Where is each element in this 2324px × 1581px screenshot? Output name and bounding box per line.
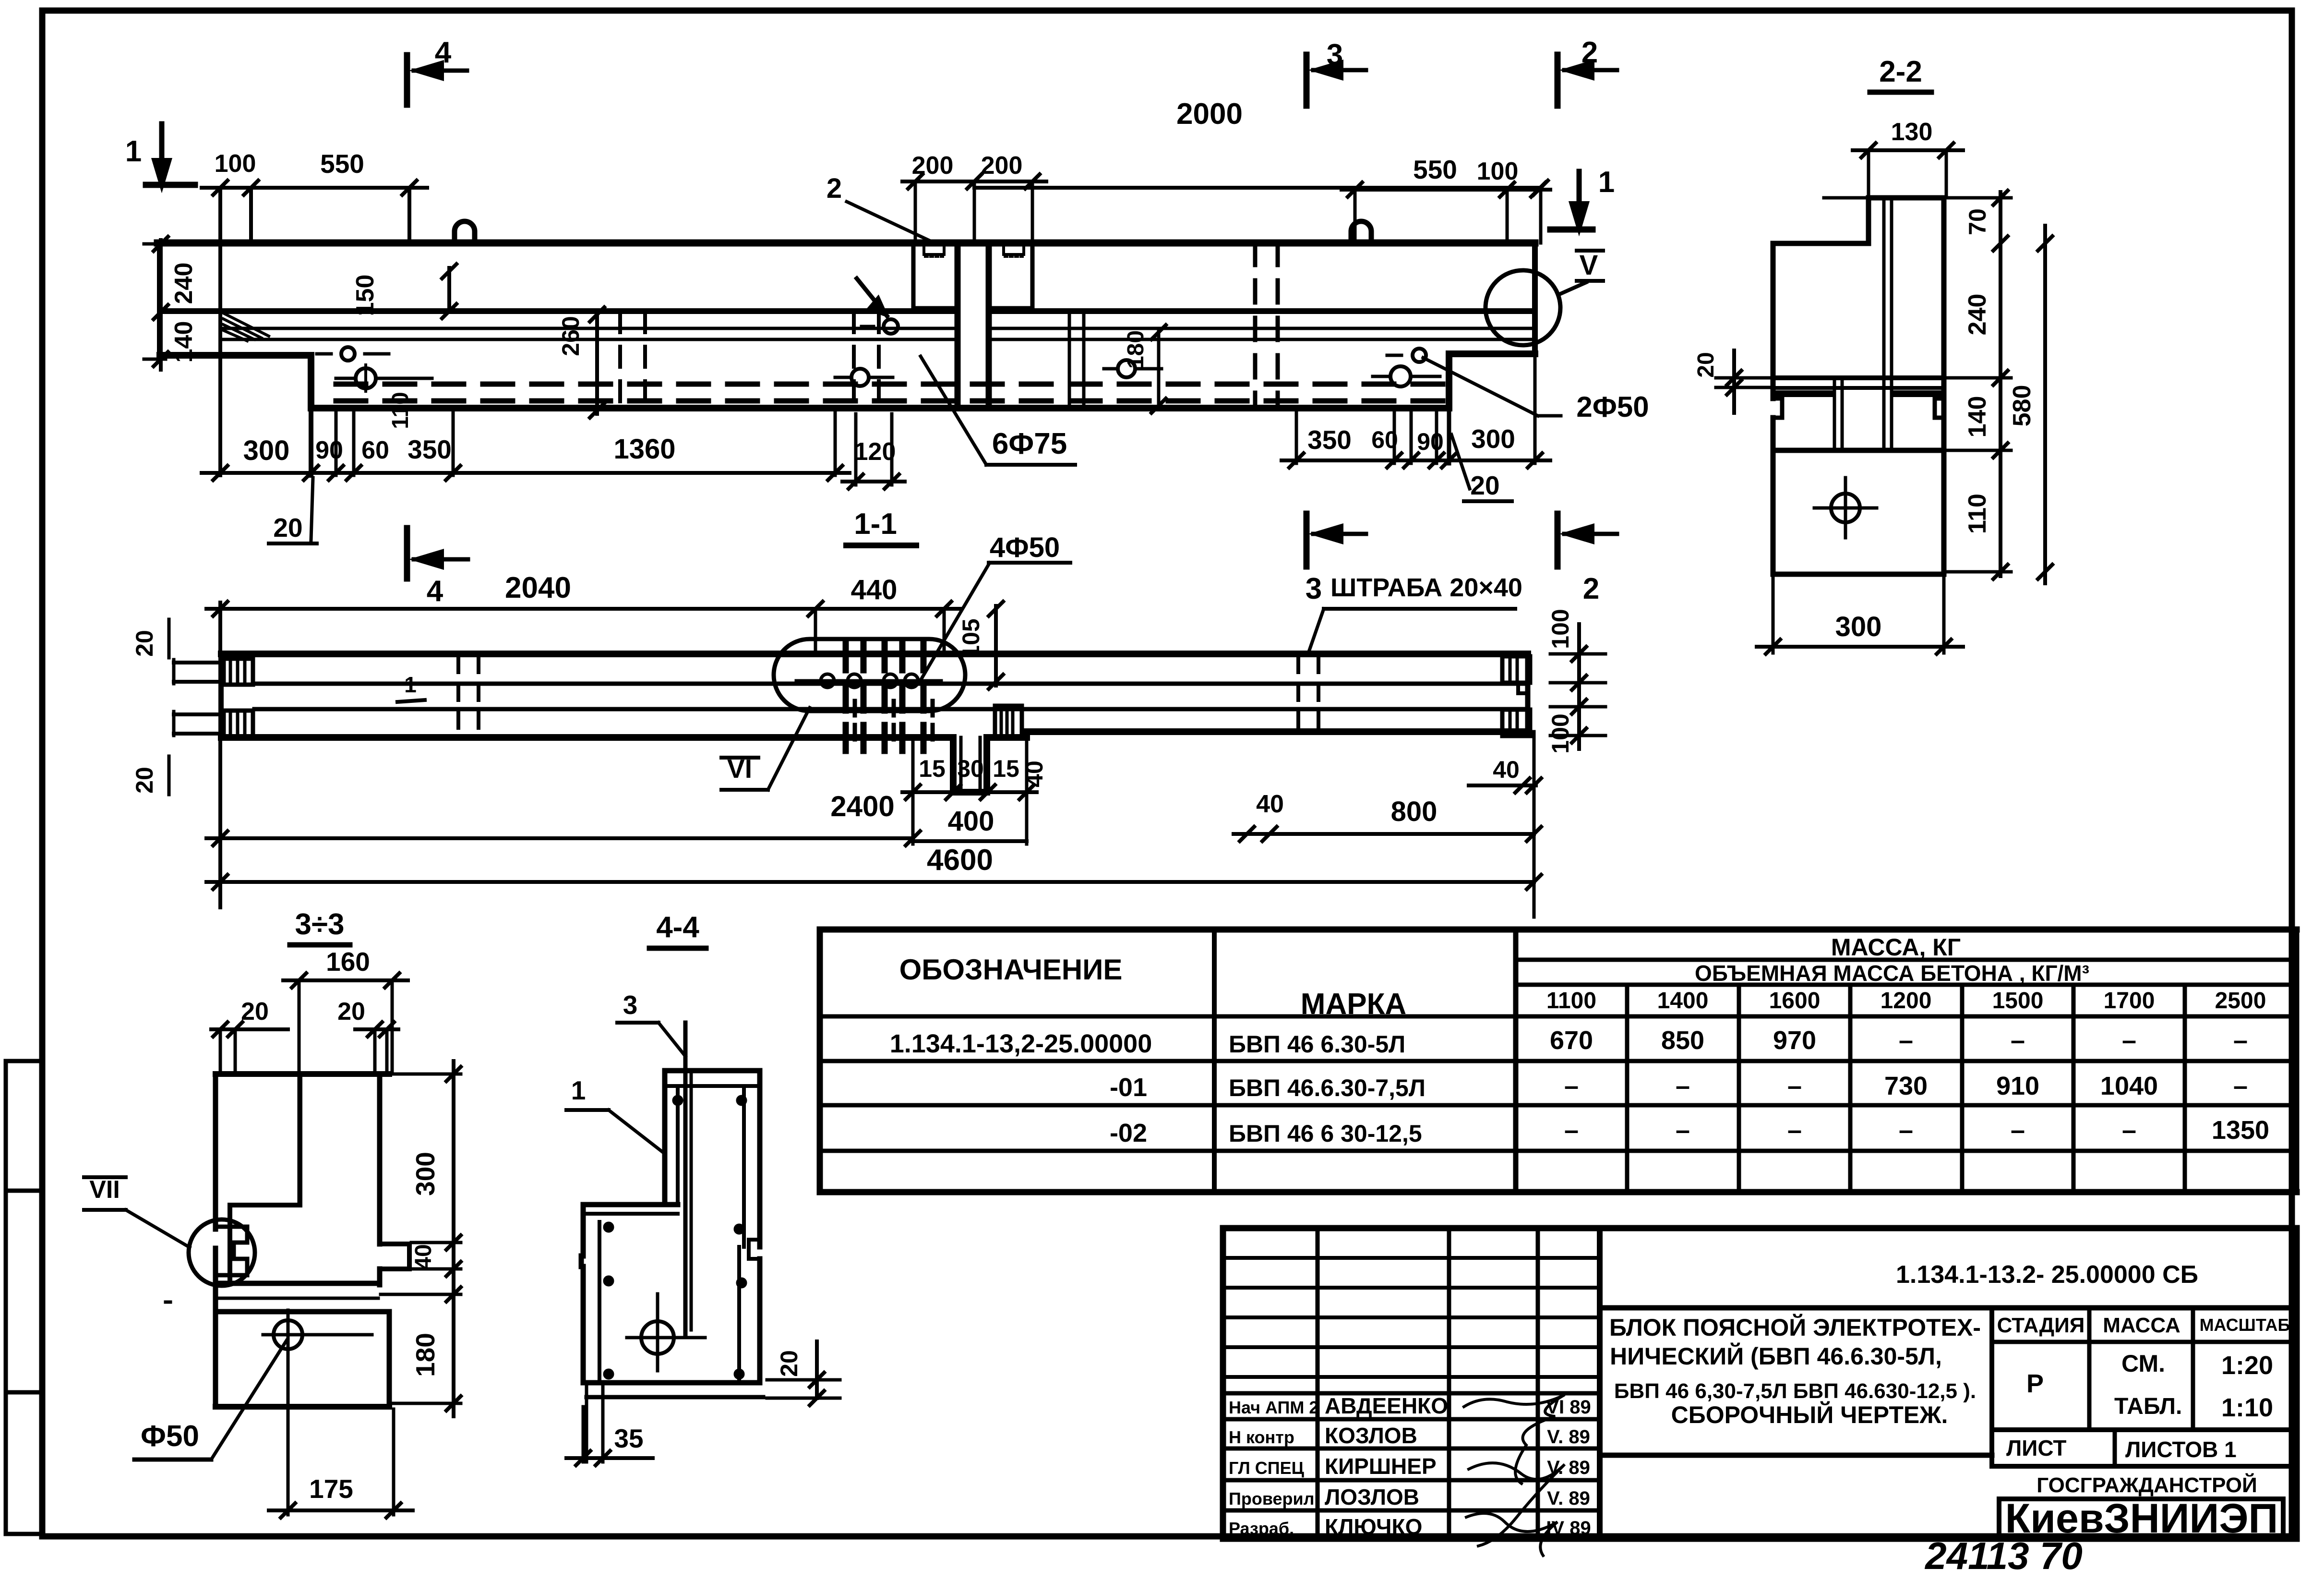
svg-text:4600: 4600: [927, 844, 993, 877]
svg-text:–: –: [1787, 1116, 1802, 1145]
svg-text:АВДЕЕНКО: АВДЕЕНКО: [1325, 1393, 1448, 1418]
svg-text:4-4: 4-4: [656, 911, 699, 944]
svg-text:–: –: [1899, 1026, 1913, 1055]
svg-text:МАССА: МАССА: [2103, 1314, 2180, 1337]
svg-text:БЛОК ПОЯСНОЙ ЭЛЕКТРОТЕХ-: БЛОК ПОЯСНОЙ ЭЛЕКТРОТЕХ-: [1609, 1314, 1981, 1341]
svg-text:1350: 1350: [2212, 1116, 2269, 1145]
svg-text:–: –: [1899, 1116, 1913, 1145]
svg-text:150: 150: [351, 275, 379, 316]
svg-text:180: 180: [1123, 330, 1149, 369]
svg-text:1500: 1500: [1992, 988, 2044, 1014]
svg-text:300: 300: [1835, 611, 1882, 642]
svg-text:1:10: 1:10: [2221, 1393, 2273, 1422]
svg-text:130: 130: [1891, 118, 1933, 146]
svg-text:ТАБЛ.: ТАБЛ.: [2114, 1394, 2182, 1419]
svg-text:20: 20: [131, 767, 158, 794]
svg-text:100: 100: [215, 150, 256, 178]
svg-text:-01: -01: [1110, 1073, 1147, 1102]
svg-text:140: 140: [1964, 396, 1991, 438]
svg-text:–: –: [2233, 1026, 2248, 1055]
svg-text:Н контр: Н контр: [1229, 1427, 1294, 1447]
svg-text:300: 300: [243, 435, 290, 466]
svg-text:–: –: [2122, 1026, 2136, 1055]
svg-text:400: 400: [948, 806, 994, 837]
svg-text:Разраб.: Разраб.: [1229, 1519, 1294, 1538]
svg-text:БВП 46.6.30-7,5Л: БВП 46.6.30-7,5Л: [1229, 1074, 1426, 1101]
svg-text:–: –: [1676, 1116, 1690, 1145]
svg-text:–: –: [2011, 1116, 2025, 1145]
svg-text:1200: 1200: [1881, 988, 1932, 1014]
svg-text:800: 800: [1391, 796, 1438, 827]
svg-text:V. 89: V. 89: [1547, 1488, 1590, 1509]
svg-text:ГЛ СПЕЦ: ГЛ СПЕЦ: [1229, 1458, 1305, 1478]
svg-text:ОБОЗНАЧЕНИЕ: ОБОЗНАЧЕНИЕ: [899, 953, 1123, 986]
svg-text:200: 200: [912, 152, 954, 180]
svg-text:100: 100: [1547, 609, 1574, 649]
svg-text:910: 910: [1996, 1072, 2039, 1100]
svg-text:850: 850: [1661, 1026, 1704, 1055]
svg-text:ГОСГРАЖДАНСТРОЙ: ГОСГРАЖДАНСТРОЙ: [2036, 1472, 2257, 1497]
svg-text:2-2: 2-2: [1879, 55, 1922, 88]
svg-text:20: 20: [241, 998, 269, 1026]
svg-text:60: 60: [361, 436, 389, 464]
svg-text:550: 550: [320, 149, 364, 179]
svg-text:3: 3: [1306, 572, 1322, 605]
svg-text:2Ф50: 2Ф50: [1576, 391, 1649, 423]
svg-text:VII: VII: [89, 1176, 120, 1204]
svg-text:2: 2: [1581, 36, 1598, 69]
svg-text:20: 20: [131, 630, 158, 657]
svg-text:4Ф50: 4Ф50: [990, 532, 1060, 563]
svg-text:20: 20: [273, 513, 302, 543]
svg-text:580: 580: [2008, 385, 2036, 427]
svg-text:–: –: [2122, 1116, 2136, 1145]
svg-text:ЛИСТОВ 1: ЛИСТОВ 1: [2125, 1437, 2237, 1462]
svg-text:–: –: [2233, 1072, 2248, 1100]
svg-text:БВП 46 6 30-12,5: БВП 46 6 30-12,5: [1229, 1120, 1422, 1147]
svg-text:1-1: 1-1: [854, 507, 897, 541]
svg-text:100: 100: [1477, 157, 1519, 185]
svg-text:2040: 2040: [505, 571, 571, 604]
svg-text:730: 730: [1884, 1072, 1928, 1100]
svg-text:–: –: [1564, 1116, 1579, 1145]
svg-text:4: 4: [427, 575, 443, 608]
svg-text:240: 240: [1964, 294, 1991, 336]
svg-text:БВП 46 6.30-5Л: БВП 46 6.30-5Л: [1229, 1031, 1405, 1058]
svg-text:1:20: 1:20: [2221, 1351, 2273, 1380]
svg-text:200: 200: [981, 152, 1023, 180]
svg-text:–: –: [1787, 1072, 1802, 1100]
svg-text:ШТРАБА 20×40: ШТРАБА 20×40: [1330, 573, 1522, 602]
svg-text:МАСШТАБ: МАСШТАБ: [2200, 1315, 2290, 1335]
svg-text:90: 90: [1417, 428, 1444, 455]
svg-text:1100: 1100: [1546, 988, 1596, 1014]
svg-text:4: 4: [435, 36, 452, 69]
svg-text:6Ф75: 6Ф75: [992, 427, 1067, 460]
svg-text:550: 550: [1413, 155, 1457, 184]
svg-text:МАРКА: МАРКА: [1301, 988, 1406, 1021]
svg-text:40: 40: [1021, 760, 1048, 787]
svg-text:ЛИСТ: ЛИСТ: [2006, 1436, 2067, 1460]
svg-text:КЛЮЧКО: КЛЮЧКО: [1325, 1514, 1422, 1539]
svg-text:24113 70: 24113 70: [1924, 1534, 2083, 1577]
svg-text:1040: 1040: [2100, 1072, 2158, 1100]
svg-text:15: 15: [919, 755, 946, 782]
svg-text:175: 175: [309, 1474, 353, 1504]
svg-text:Ф50: Ф50: [141, 1420, 199, 1453]
svg-text:–: –: [2011, 1026, 2025, 1055]
svg-text:2500: 2500: [2215, 988, 2266, 1014]
svg-text:30: 30: [957, 755, 984, 782]
svg-text:15: 15: [993, 755, 1019, 782]
svg-text:40: 40: [1256, 790, 1284, 818]
svg-text:IV 89: IV 89: [1546, 1518, 1591, 1539]
svg-text:1360: 1360: [613, 434, 675, 465]
svg-text:110: 110: [1964, 494, 1991, 534]
svg-text:2000: 2000: [1176, 97, 1243, 131]
svg-text:3: 3: [623, 990, 638, 1020]
svg-text:1.134.1-13.2- 25.00000 СБ: 1.134.1-13.2- 25.00000 СБ: [1896, 1261, 2198, 1289]
svg-text:90: 90: [315, 436, 343, 464]
svg-text:40: 40: [411, 1244, 436, 1269]
svg-text:350: 350: [407, 434, 452, 464]
svg-text:1: 1: [1598, 166, 1615, 199]
svg-text:КИРШНЕР: КИРШНЕР: [1325, 1454, 1437, 1479]
svg-text:2: 2: [827, 173, 842, 204]
svg-text:1: 1: [125, 135, 142, 168]
svg-text:120: 120: [854, 438, 896, 466]
svg-text:V. 89: V. 89: [1547, 1426, 1590, 1448]
svg-text:1: 1: [571, 1075, 586, 1105]
svg-text:20: 20: [776, 1350, 803, 1377]
svg-text:60: 60: [1371, 426, 1398, 453]
svg-text:V: V: [1580, 250, 1598, 281]
svg-text:100: 100: [1547, 713, 1574, 753]
svg-text:1400: 1400: [1657, 988, 1709, 1014]
svg-text:300: 300: [410, 1152, 440, 1196]
svg-text:160: 160: [326, 947, 370, 977]
svg-text:ОБЪЕМНАЯ МАССА БЕТОНА , КГ/М: ОБЪЕМНАЯ МАССА БЕТОНА , КГ/М³: [1695, 961, 2089, 986]
svg-text:970: 970: [1773, 1026, 1816, 1055]
svg-text:БВП 46 6,30-7,5Л БВП 46.630-1: БВП 46 6,30-7,5Л БВП 46.630-12,5 ).: [1614, 1379, 1976, 1403]
svg-text:СТАДИЯ: СТАДИЯ: [1997, 1314, 2085, 1337]
svg-text:1600: 1600: [1769, 988, 1821, 1014]
svg-text:300: 300: [1471, 424, 1515, 454]
svg-text:2400: 2400: [830, 790, 894, 822]
svg-text:20: 20: [1470, 471, 1499, 500]
svg-text:70: 70: [1964, 208, 1991, 235]
svg-text:1: 1: [404, 672, 417, 697]
svg-text:–: –: [1676, 1072, 1690, 1100]
svg-text:105: 105: [958, 618, 984, 658]
svg-text:СМ.: СМ.: [2121, 1350, 2165, 1377]
svg-text:350: 350: [1307, 425, 1352, 455]
svg-text:–: –: [1564, 1072, 1579, 1100]
svg-text:35: 35: [614, 1424, 643, 1453]
svg-text:КОЗЛОВ: КОЗЛОВ: [1325, 1423, 1417, 1448]
svg-text:2: 2: [1583, 572, 1599, 605]
svg-text:3÷3: 3÷3: [295, 908, 345, 941]
svg-text:20: 20: [1693, 352, 1719, 377]
svg-text:3: 3: [1327, 38, 1343, 72]
svg-text:1700: 1700: [2104, 988, 2155, 1014]
svg-text:110: 110: [388, 392, 413, 429]
svg-text:Нач АПМ 2: Нач АПМ 2: [1229, 1398, 1318, 1417]
svg-text:Проверил: Проверил: [1229, 1489, 1315, 1509]
svg-text:МАССА, КГ: МАССА, КГ: [1831, 934, 1961, 961]
svg-text:-02: -02: [1110, 1119, 1147, 1147]
svg-text:440: 440: [851, 574, 898, 605]
svg-text:40: 40: [1493, 756, 1520, 783]
svg-text:СБОРОЧНЫЙ ЧЕРТЕЖ.: СБОРОЧНЫЙ ЧЕРТЕЖ.: [1671, 1401, 1948, 1428]
svg-text:670: 670: [1550, 1026, 1593, 1055]
svg-text:ЛОЗЛОВ: ЛОЗЛОВ: [1325, 1484, 1419, 1509]
svg-text:Р: Р: [2026, 1369, 2044, 1398]
svg-text:НИЧЕСКИЙ (БВП 46.6.30-5Л,: НИЧЕСКИЙ (БВП 46.6.30-5Л,: [1610, 1342, 1942, 1370]
svg-text:20: 20: [337, 998, 365, 1026]
svg-text:180: 180: [410, 1333, 440, 1377]
svg-text:140: 140: [170, 321, 198, 363]
svg-text:240: 240: [170, 263, 198, 304]
svg-text:260: 260: [557, 316, 584, 356]
svg-text:1.134.1-13,2-25.00000: 1.134.1-13,2-25.00000: [890, 1029, 1152, 1058]
